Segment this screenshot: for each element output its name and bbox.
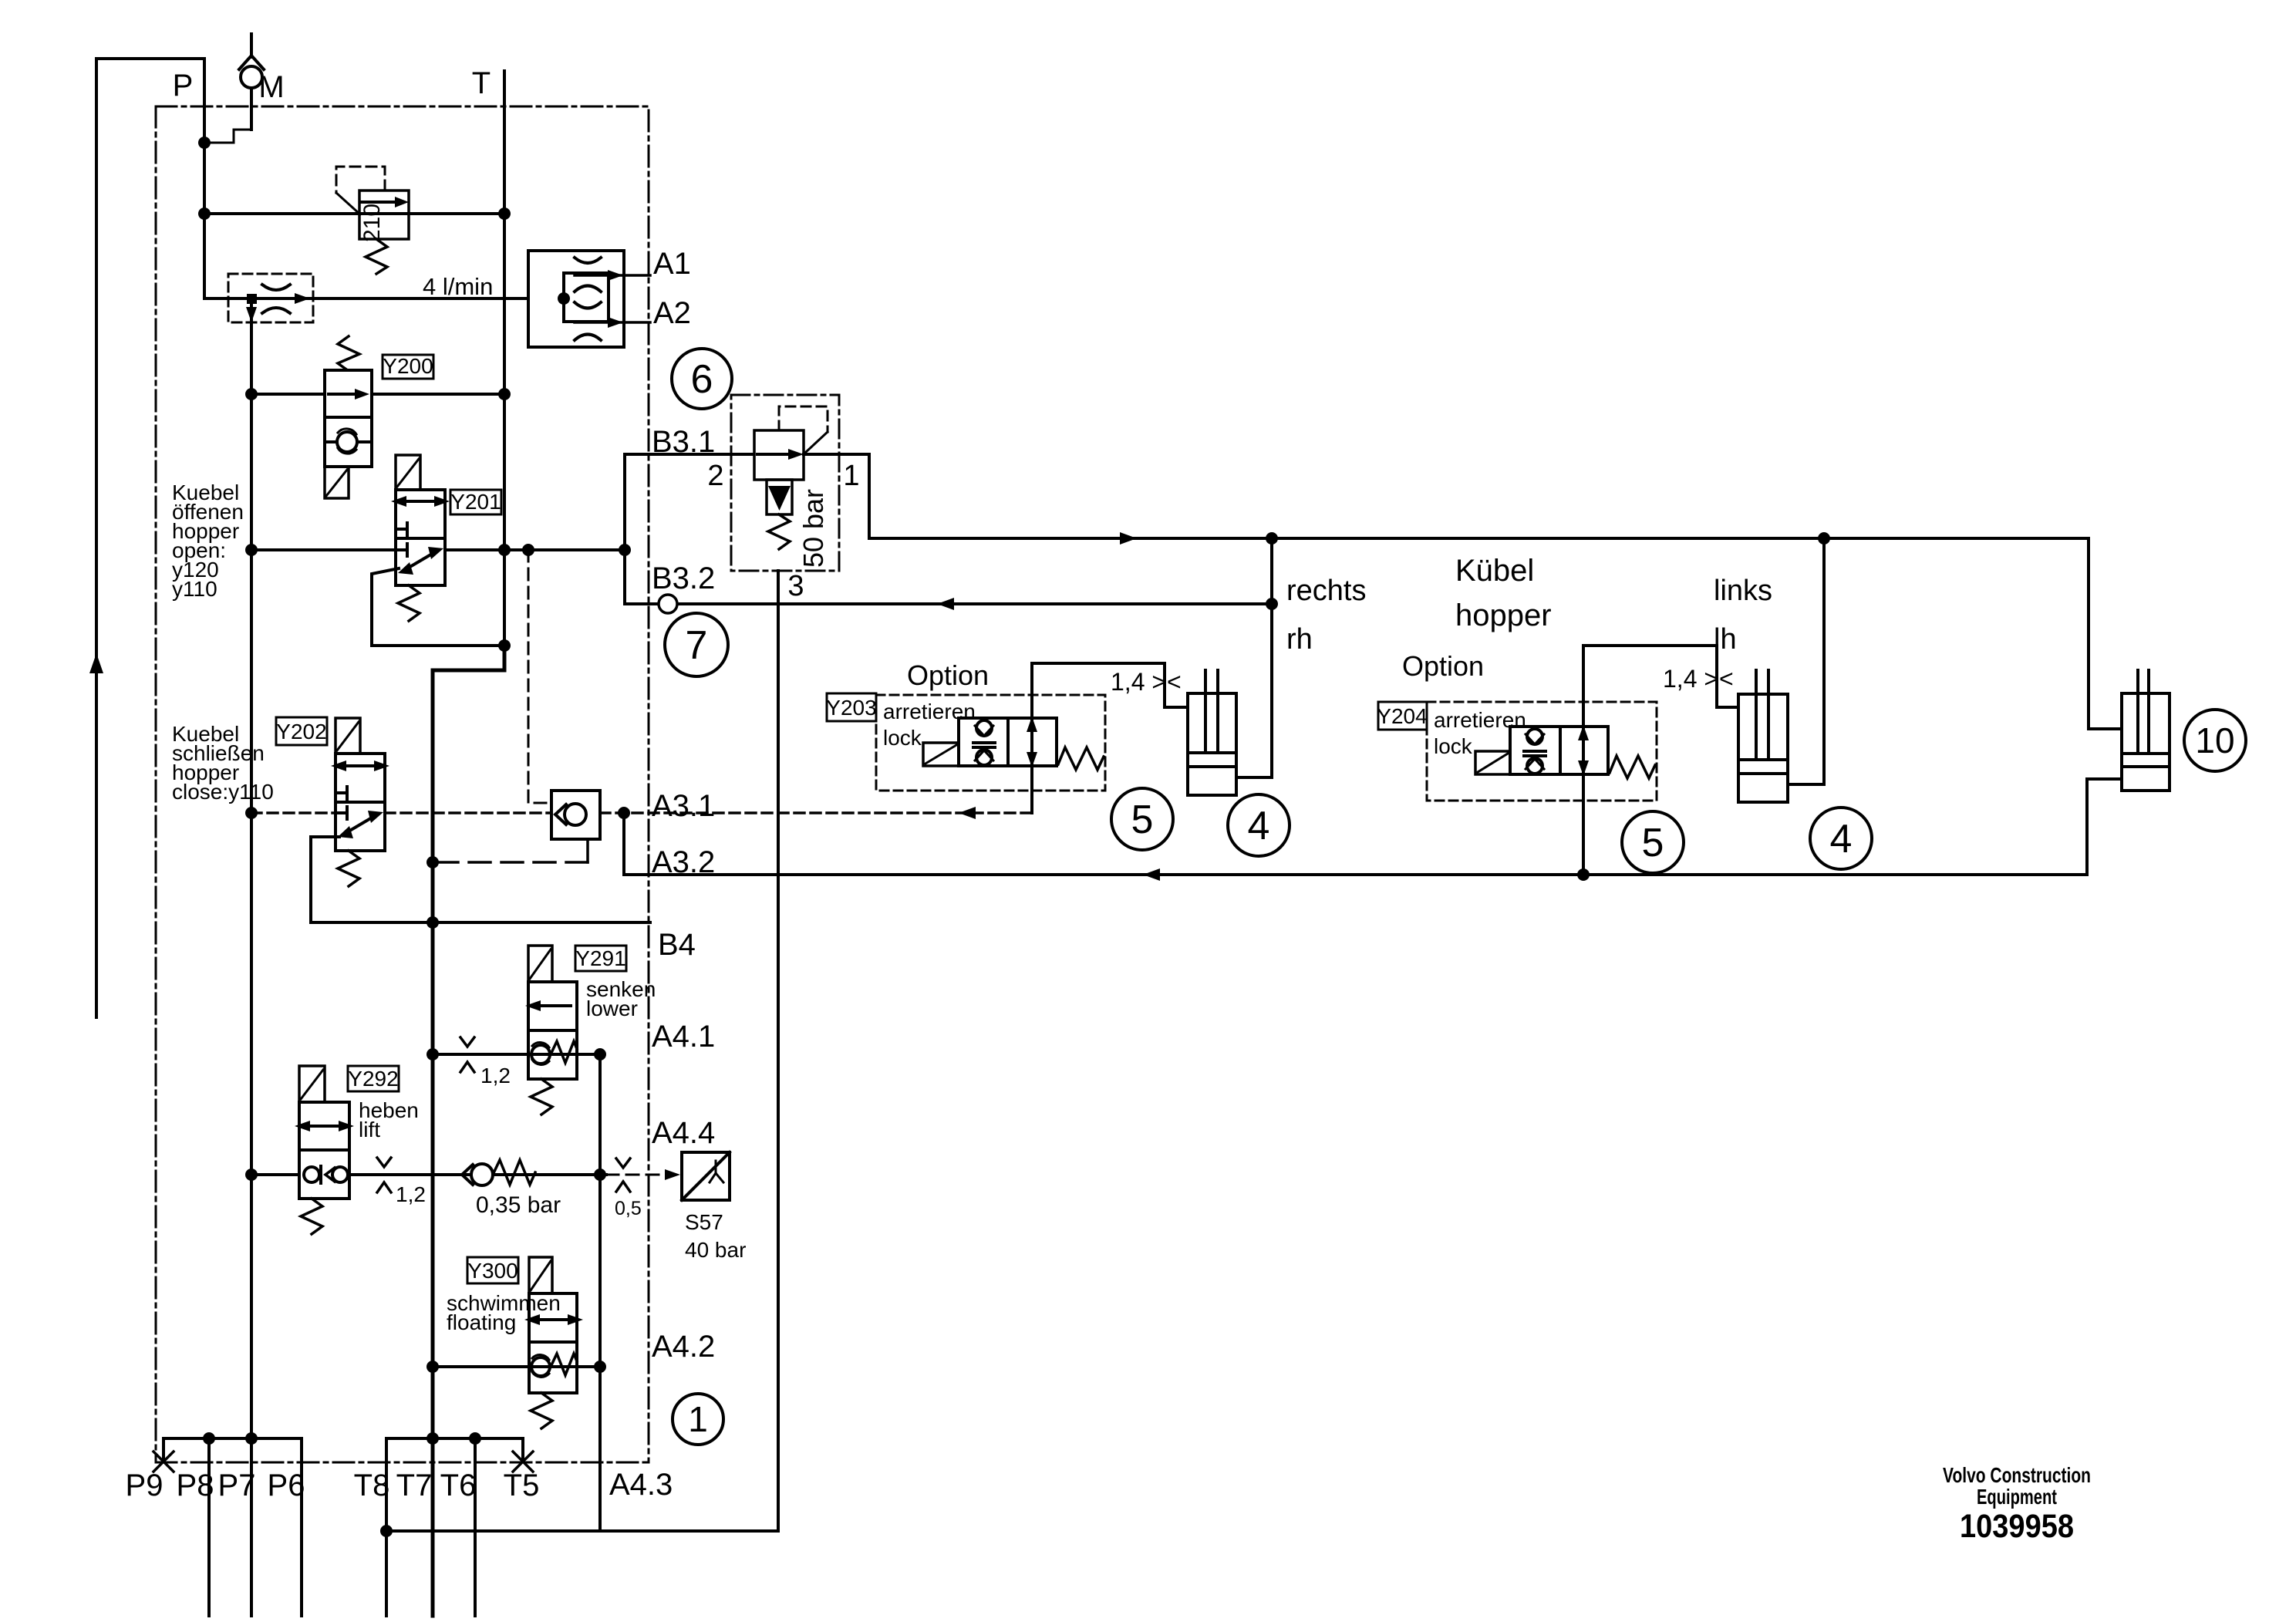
cylinder lh lock — [1738, 670, 1788, 802]
text: Option (Y203) — [907, 659, 989, 691]
svg-text:2: 2 — [707, 460, 723, 492]
svg-text:P6: P6 — [268, 1469, 305, 1502]
valve Y300 2/2 floating — [524, 1257, 583, 1428]
pin label 1 — [843, 460, 859, 492]
port X mark P9 — [153, 1452, 174, 1472]
svg-text:7: 7 — [686, 623, 708, 668]
svg-text:1: 1 — [843, 460, 859, 492]
wire: A4 collector vertical to drain — [598, 1054, 602, 1531]
port label P8 — [177, 1469, 214, 1502]
svg-text:B3.2: B3.2 — [652, 561, 715, 595]
port X mark T5 — [513, 1452, 533, 1472]
node: rh riser at B3.2 line end — [1266, 598, 1278, 610]
callout circle 4 (lh) — [1810, 808, 1872, 869]
svg-text:Equipment: Equipment — [1977, 1485, 2057, 1509]
value label 1,2 — [480, 1064, 511, 1088]
node: A3 junction — [618, 807, 630, 819]
option enclosure Y204 (dashed) — [1427, 702, 1657, 801]
text: heben lift — [359, 1098, 419, 1141]
svg-text:Y292: Y292 — [348, 1067, 398, 1091]
check valve M (anti-cavitation) — [239, 34, 264, 130]
valve Y204 lock valve — [1475, 725, 1655, 778]
throttle chevrons after Y292 — [377, 1158, 391, 1192]
node: flow divider input — [558, 292, 570, 305]
text: Kuebel hopper heading — [1455, 554, 1552, 632]
throttle chevrons 0,5 — [616, 1158, 630, 1192]
wire: dash-dot enclosure border (valve block boundary) — [156, 106, 649, 1462]
port label A3.2 — [652, 845, 715, 879]
port label M — [258, 70, 284, 104]
svg-text:T5: T5 — [504, 1469, 540, 1502]
valve Y202 3/2 solenoid — [331, 718, 389, 886]
svg-text:1,2: 1,2 — [480, 1064, 511, 1088]
svg-text:Y291: Y291 — [575, 946, 625, 970]
value label 1,2 — [396, 1182, 426, 1206]
wire: Y200 line P to T — [251, 393, 504, 396]
wire: Y203 riser through valve — [1030, 663, 1033, 813]
svg-text:B3.1: B3.1 — [652, 425, 715, 459]
callout circle 4 (rh) — [1228, 794, 1290, 856]
valve Y201 3/2 solenoid — [391, 455, 450, 621]
svg-text:T8: T8 — [354, 1469, 390, 1502]
port label A4.2 — [652, 1330, 715, 1364]
value label 0,35 bar — [476, 1192, 561, 1218]
port label A4.3 — [609, 1468, 673, 1502]
port label P — [173, 69, 194, 103]
wire: pilot dashes of 210 — [336, 167, 385, 193]
wire: A3.2 long line — [624, 873, 2087, 876]
wire: rh cylinder bottom port — [1236, 776, 1272, 779]
svg-text:Kübel: Kübel — [1455, 554, 1534, 588]
svg-text:A2: A2 — [653, 296, 691, 330]
node: drain at T7 — [426, 856, 439, 868]
test point circle on B3.2 — [659, 595, 677, 613]
wire: dashed link to S57 — [606, 1174, 673, 1176]
svg-text:Y202: Y202 — [276, 720, 326, 744]
component label box Y200 — [383, 355, 433, 379]
text: arretieren lock (Y204) — [1434, 708, 1526, 758]
flow arrow into S57 — [665, 1169, 680, 1180]
svg-text:lift: lift — [359, 1118, 380, 1141]
flow arrow up on pump line — [89, 653, 103, 673]
component label box Y202 — [276, 717, 327, 745]
callout circle 7 — [665, 613, 728, 676]
node: branch to Y200 inside orifice box — [247, 294, 257, 304]
svg-text:rh: rh — [1286, 623, 1313, 656]
svg-text:1039958: 1039958 — [1960, 1508, 2074, 1545]
port label T — [472, 66, 491, 100]
node: Y200 line at P — [245, 388, 258, 400]
wire: B3.1 riser — [623, 454, 626, 604]
svg-text:Option: Option — [907, 659, 989, 691]
svg-text:4: 4 — [1830, 817, 1853, 862]
node: A4.4 at collector — [594, 1168, 606, 1181]
relief valve spring — [768, 514, 790, 549]
svg-text:T: T — [472, 66, 491, 100]
wire: A4.4 line — [251, 1173, 606, 1176]
cylinder rh lock — [1188, 670, 1236, 795]
wire: relief valve port 1 down to hopper-open main line — [804, 454, 869, 538]
svg-text:floating: floating — [447, 1310, 516, 1334]
wire: rh riser — [1270, 538, 1273, 777]
wire: T rail vertical — [503, 71, 506, 646]
callout circle 6 — [672, 349, 732, 409]
svg-text:P8: P8 — [177, 1469, 214, 1502]
component label box Y201 — [450, 490, 501, 514]
node: close line at P — [245, 807, 258, 819]
text: schwimmen floating — [447, 1291, 561, 1334]
svg-text:Y200: Y200 — [383, 354, 433, 378]
adjustment arrow of 210 — [336, 193, 360, 214]
node: 210 branch junction — [198, 207, 211, 220]
svg-text:hopper: hopper — [1455, 599, 1552, 632]
port label B4 — [658, 928, 696, 962]
wire: Y203 top path to rh cylinder — [1032, 663, 1188, 707]
node: top line at rh riser — [1266, 532, 1278, 545]
port label P6 — [268, 1469, 305, 1502]
svg-text:A1: A1 — [653, 247, 691, 281]
svg-text:<: < — [1167, 668, 1182, 696]
wire: relief valve port 3 drain to T8 — [777, 571, 780, 1531]
component label box Y300 — [467, 1257, 518, 1283]
wire: B4 line — [311, 921, 650, 924]
node: open line pilot branch — [522, 544, 534, 556]
wire: lh cylinder bottom port — [1788, 783, 1824, 786]
svg-text:A4.1: A4.1 — [652, 1020, 715, 1054]
orifice arcs — [262, 285, 290, 313]
component label box Y204 — [1378, 702, 1427, 730]
text: drawing number 1039958 — [1960, 1508, 2074, 1545]
node: drain at T8 — [380, 1525, 393, 1537]
node: A4.1 at collector — [594, 1048, 606, 1061]
port label A2 — [653, 296, 691, 330]
node: bypass loop at T — [498, 639, 511, 652]
wire: P8 line down — [207, 1438, 211, 1616]
wire: cylinder 10 bottom feed — [2087, 779, 2122, 875]
svg-text:y110: y110 — [172, 577, 217, 601]
svg-text:210: 210 — [359, 204, 385, 242]
flow arrow A1 — [608, 270, 623, 281]
node: Y200 line at T — [498, 388, 511, 400]
wire: A4.1 line — [433, 1053, 600, 1056]
svg-text:A3.1: A3.1 — [652, 789, 715, 823]
svg-text:40 bar: 40 bar — [685, 1238, 746, 1262]
valve Y291 2/2 lowering — [525, 946, 577, 1114]
node: P manifold at P8 — [203, 1432, 215, 1445]
wire: Y204 top path to lh cylinder — [1583, 646, 1738, 707]
svg-text:lock: lock — [883, 726, 922, 750]
svg-text:Y204: Y204 — [1377, 704, 1427, 728]
svg-text:B4: B4 — [658, 928, 696, 962]
svg-text:lock: lock — [1434, 734, 1473, 758]
svg-text:3: 3 — [787, 570, 804, 602]
wire: 4 l/min supply line — [204, 297, 564, 300]
flow arrow left on A3.2 line — [1143, 868, 1160, 881]
svg-text:Y201: Y201 — [450, 490, 501, 514]
wire: A2 output line — [575, 321, 650, 324]
valve Y292 2/2 lifting — [295, 1066, 354, 1234]
svg-text:P9: P9 — [126, 1469, 164, 1502]
svg-text:close:y110: close:y110 — [172, 780, 274, 804]
wire: Y202 bypass loop to B4 line — [311, 837, 339, 922]
flow arrow on 4 l/min line — [295, 293, 310, 304]
port label A4.1 — [652, 1020, 715, 1054]
check valve on A3.1 — [551, 791, 600, 839]
component label box Y291 — [575, 946, 626, 971]
flow divider inner box — [564, 273, 609, 322]
text: links lh — [1714, 575, 1772, 656]
relief valve 50 bar enclosure (dash-dot) — [731, 395, 839, 571]
port label B3.1 — [652, 425, 715, 459]
node: top line at lh riser — [1818, 532, 1830, 545]
svg-text:T6: T6 — [440, 1469, 477, 1502]
valve Y203 lock valve — [923, 717, 1104, 770]
cylinder 10 — [2122, 670, 2170, 791]
check valve 0,35 bar — [462, 1160, 535, 1185]
svg-text:lower: lower — [586, 996, 638, 1020]
wire: T8 line below drain — [385, 1531, 388, 1616]
pressure relief valve 210 — [359, 191, 409, 274]
svg-text:Y300: Y300 — [467, 1259, 518, 1283]
fixed orifice with enclosure (dashed box) — [228, 274, 313, 322]
wire: cylinder 10 top feed — [2089, 538, 2122, 729]
svg-text:<: < — [1719, 665, 1734, 693]
text: rechts rh — [1286, 575, 1366, 656]
flow arrow right on top line — [1120, 532, 1137, 545]
svg-text:links: links — [1714, 575, 1772, 607]
wire: A1 output line — [575, 274, 650, 277]
wire: 210 bypass line P to T — [204, 212, 504, 215]
wire: hopper-close pilot line (dashed) P to A3.1 — [251, 811, 1032, 814]
svg-text:Volvo Construction: Volvo Construction — [1943, 1463, 2091, 1487]
svg-text:Option: Option — [1402, 650, 1484, 682]
svg-text:1,4 >: 1,4 > — [1111, 668, 1166, 696]
wire: A4.2 line — [433, 1365, 600, 1368]
pin label 2 — [707, 460, 723, 492]
port label P7 — [218, 1469, 256, 1502]
flow arrow A2 — [608, 317, 623, 328]
svg-text:S57: S57 — [685, 1210, 723, 1234]
node: P manifold at P7 — [245, 1432, 258, 1445]
pressure switch S57 — [682, 1152, 730, 1200]
node: 210 line at T — [498, 207, 511, 220]
flow arrow down on branch — [246, 307, 257, 322]
text: Volvo Construction Equipment — [1943, 1463, 2091, 1509]
text: arretieren lock (Y203) — [883, 700, 976, 750]
wire: check valve drain (dashed) to T7 — [586, 839, 589, 862]
svg-text:4: 4 — [1248, 804, 1270, 848]
svg-text:6: 6 — [691, 357, 713, 402]
wire: P manifold — [164, 1438, 302, 1616]
port label T7 — [396, 1469, 433, 1502]
relief valve pilot dashes — [779, 406, 828, 432]
throttle 1,4 at lh cylinder — [1663, 665, 1734, 693]
callout circle 1 — [673, 1394, 723, 1445]
svg-text:1,2: 1,2 — [396, 1182, 426, 1206]
node: A4.1 at T7 — [426, 1048, 439, 1061]
throttle chevrons on A4.1 — [460, 1037, 474, 1072]
flow arrow left on B3.2 line — [937, 598, 954, 610]
node: open line at riser — [619, 544, 631, 556]
svg-text:rechts: rechts — [1286, 575, 1366, 607]
relief valve adjustment diagonal — [805, 432, 828, 453]
svg-text:A4.3: A4.3 — [609, 1468, 673, 1502]
wire: T rail jog to T7 — [433, 646, 504, 1616]
node: open line at P — [245, 544, 258, 556]
wire: Y201 bypass loop to T — [372, 568, 504, 646]
throttle 1,4 at rh cylinder — [1111, 668, 1182, 696]
text: Kuebel oeffenen hopper open — [172, 481, 244, 601]
callout circle 5 (rh) — [1111, 788, 1173, 850]
wire: T manifold — [386, 1438, 523, 1531]
wire: B3.2 line — [625, 602, 1272, 605]
node: T manifold at T7 — [426, 1432, 439, 1445]
port label A1 — [653, 247, 691, 281]
wire: hopper-open long top line — [869, 537, 2089, 540]
node: A4.2 at T7 — [426, 1361, 439, 1373]
wire: Y204 riser through valve — [1582, 646, 1585, 875]
component label box Y203 — [827, 693, 876, 721]
svg-text:P7: P7 — [218, 1469, 256, 1502]
port label B3.2 — [652, 561, 715, 595]
wire: T6 line down — [474, 1438, 477, 1616]
svg-text:A4.4: A4.4 — [652, 1116, 715, 1150]
svg-text:A3.2: A3.2 — [652, 845, 715, 879]
relief valve poppet (filled triangle) — [767, 480, 792, 514]
port label A3.1 — [652, 789, 715, 823]
port label A4.4 — [652, 1116, 715, 1150]
wire: B3.1 line to relief valve — [625, 453, 754, 456]
valve Y200 2/2 solenoid with check — [325, 336, 372, 498]
flow divider A1/A2 outer box — [528, 251, 624, 347]
value label 0,5 — [615, 1198, 642, 1219]
svg-text:1: 1 — [688, 1399, 708, 1439]
svg-text:4 l/min: 4 l/min — [423, 273, 493, 300]
wire: P rail vertical — [250, 298, 253, 1616]
port label T6 — [440, 1469, 477, 1502]
flow divider arcs — [575, 258, 601, 340]
port label P9 — [126, 1469, 164, 1502]
component label box Y292 — [348, 1066, 399, 1091]
option enclosure Y203 (dashed) — [876, 695, 1105, 791]
node: A4.4 at P — [245, 1168, 258, 1181]
node: M drain junction — [198, 137, 211, 149]
svg-text:5: 5 — [1131, 798, 1154, 842]
node: Y204 riser at A3.2 — [1577, 868, 1590, 881]
wire: lh riser — [1822, 538, 1826, 784]
svg-text:50 bar: 50 bar — [797, 489, 829, 568]
svg-text:10: 10 — [2195, 720, 2234, 760]
node: A4.2 at collector — [594, 1361, 606, 1373]
node: T manifold at T6 — [469, 1432, 481, 1445]
text: S57 40 bar — [685, 1210, 746, 1262]
pin label 3 — [787, 570, 804, 602]
flow arrow left on A3.1 line — [959, 807, 976, 819]
wire: pilot line to A3.1 check valve (dashed) — [528, 550, 551, 803]
relief valve 50 bar body — [754, 430, 804, 480]
text: Kuebel schliessen hopper close — [172, 722, 274, 804]
port label T8 — [354, 1469, 390, 1502]
wire: outer pump line left with top frame — [96, 59, 204, 1017]
value label 4 l/min — [423, 273, 493, 300]
callout circle 5 (lh) — [1622, 811, 1684, 873]
wire: drain line T8 to relief port 3 — [386, 1529, 778, 1533]
svg-text:A4.2: A4.2 — [652, 1330, 715, 1364]
svg-text:P: P — [173, 69, 194, 103]
wire: M drain jog to pump line — [204, 130, 251, 143]
svg-text:0,35 bar: 0,35 bar — [476, 1192, 561, 1218]
value label 210 (rotated) — [359, 204, 385, 242]
port label T5 — [504, 1469, 540, 1502]
node: B4 line at T7 — [426, 916, 439, 929]
svg-text:0,5: 0,5 — [615, 1198, 642, 1219]
value label 50 bar (rotated) — [797, 489, 829, 568]
svg-text:5: 5 — [1642, 821, 1664, 865]
text: senken lower — [586, 977, 656, 1020]
svg-text:Y203: Y203 — [826, 696, 876, 720]
text: Option (Y204) — [1402, 650, 1484, 682]
wire: A3 junction riser down — [622, 813, 625, 875]
node: open line at T crossing — [498, 544, 511, 556]
svg-text:T7: T7 — [396, 1469, 433, 1502]
callout circle 10 — [2184, 710, 2246, 771]
wire: branch down to Y200 line — [250, 298, 253, 394]
wire: Y201 open line P to B3.1 riser — [251, 548, 625, 551]
svg-text:1,4 >: 1,4 > — [1663, 665, 1718, 693]
